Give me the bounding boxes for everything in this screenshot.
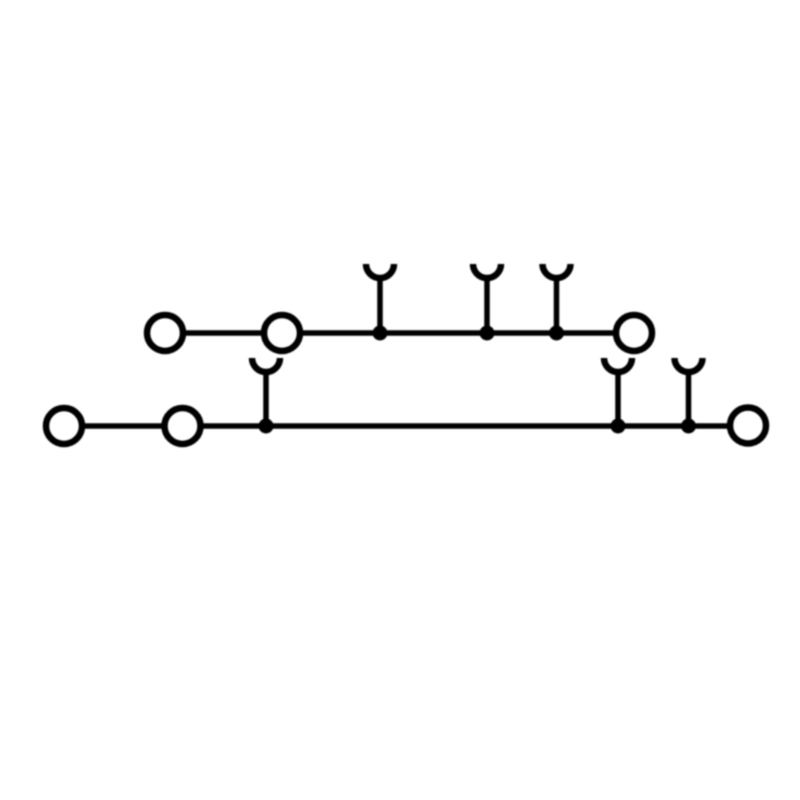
junction dot upper rail B bbox=[480, 326, 495, 341]
fork cross-connection contact above junction F bbox=[675, 358, 703, 426]
terminal circle T3 (upper level, right clamping point) bbox=[616, 315, 652, 351]
fork cross-connection contact above junction E bbox=[604, 358, 632, 426]
fork cross-connection contact above junction B bbox=[473, 264, 501, 333]
junction dot lower rail F bbox=[681, 419, 696, 434]
junction dot upper rail A bbox=[373, 326, 388, 341]
junction dot upper rail C bbox=[549, 326, 564, 341]
fork cross-connection contact above junction D bbox=[252, 358, 280, 426]
terminal circle B3 (lower level, right clamping point) bbox=[730, 408, 766, 444]
terminal circle T1 (upper level, left clamping point) bbox=[147, 315, 183, 351]
wire upper rail segment T1-T2 bbox=[183, 330, 266, 336]
wire lower rail segment B2-B3 bbox=[201, 423, 731, 429]
wire lower rail segment B1-B2 bbox=[82, 423, 165, 429]
fork cross-connection contact above junction A bbox=[366, 264, 394, 333]
terminal circle B1 (lower level, left clamping point) bbox=[46, 408, 82, 444]
fork cross-connection contact above junction C bbox=[543, 264, 571, 333]
junction dot lower rail E bbox=[611, 419, 626, 434]
terminal circle B2 (lower level, second clamping point) bbox=[165, 408, 201, 444]
junction dot lower rail D bbox=[259, 419, 274, 434]
terminal circle T2 (upper level, second clamping point) bbox=[264, 315, 300, 351]
wire upper rail segment T2-T3 bbox=[298, 330, 618, 336]
